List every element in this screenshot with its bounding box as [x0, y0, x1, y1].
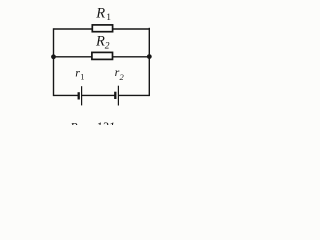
svg-text:R: R	[95, 6, 105, 22]
svg-text:131: 131	[96, 120, 115, 125]
svg-text:Рис.: Рис.	[69, 120, 92, 125]
svg-text:1: 1	[106, 13, 111, 23]
svg-text:R: R	[95, 34, 105, 50]
svg-text:2: 2	[105, 41, 110, 51]
svg-text:1: 1	[80, 72, 84, 82]
